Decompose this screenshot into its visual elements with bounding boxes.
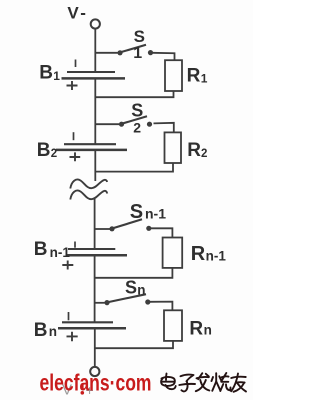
svg-text:R: R <box>187 140 201 161</box>
svg-text:B: B <box>34 239 48 260</box>
svg-text:n: n <box>137 282 145 297</box>
svg-text:n-1: n-1 <box>206 248 227 263</box>
svg-text:n: n <box>49 324 57 339</box>
svg-text:R: R <box>187 66 201 87</box>
svg-text:2: 2 <box>133 120 141 136</box>
svg-text:B: B <box>34 320 48 341</box>
svg-text:S: S <box>134 27 145 46</box>
svg-text:n-1: n-1 <box>50 245 71 260</box>
svg-text:1: 1 <box>133 45 142 62</box>
svg-text:R: R <box>189 319 203 340</box>
svg-text:elecfans·com: elecfans·com <box>40 370 152 396</box>
svg-text:2: 2 <box>201 148 207 160</box>
svg-text:V-: V- <box>67 3 88 22</box>
svg-text:S: S <box>130 201 143 223</box>
svg-text:R: R <box>191 243 206 265</box>
svg-text:B: B <box>37 140 51 161</box>
svg-text:B: B <box>39 63 53 84</box>
svg-text:n: n <box>204 323 212 338</box>
svg-text:2: 2 <box>51 148 57 160</box>
svg-text:1: 1 <box>53 69 60 83</box>
svg-text:n-1: n-1 <box>145 205 166 221</box>
svg-text:S: S <box>131 101 143 121</box>
svg-text:S: S <box>125 278 137 298</box>
svg-text:1: 1 <box>201 72 208 86</box>
